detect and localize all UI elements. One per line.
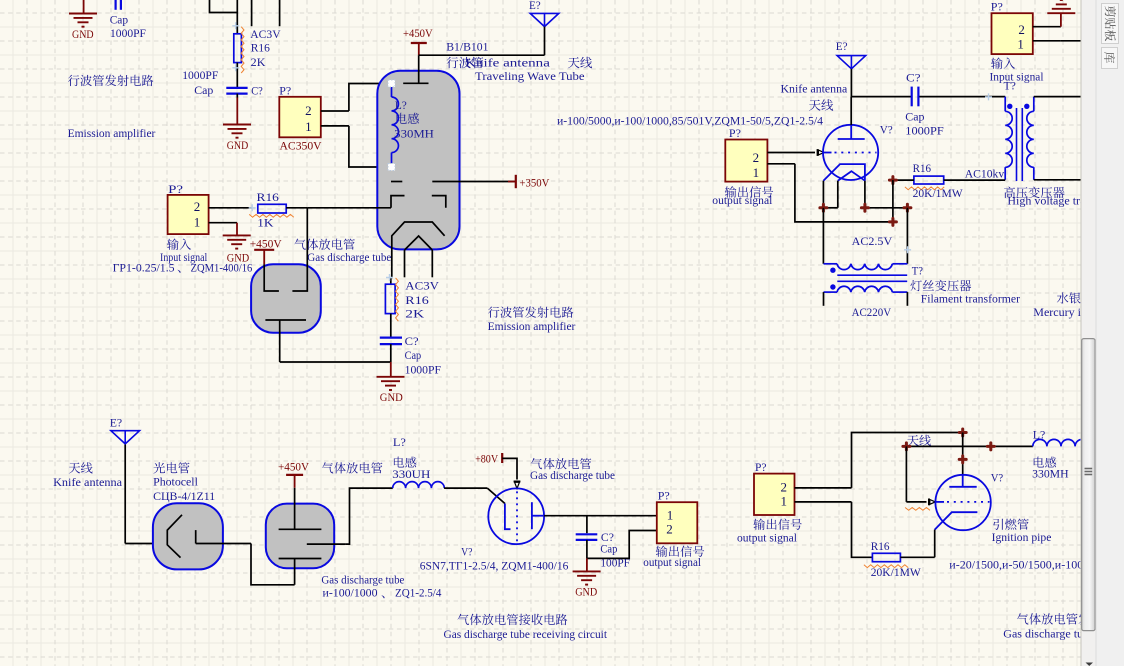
label Gas discharge tube — [307, 250, 391, 264]
svg-text:Emission amplifier: Emission amplifier — [68, 126, 156, 140]
label 输入 Input signal — [160, 238, 208, 264]
label 灯丝变压器 Filament transformer — [910, 280, 1020, 306]
svg-text:1: 1 — [667, 507, 674, 522]
svg-text:1000PF: 1000PF — [405, 363, 442, 377]
svg-text:и-100/1000: и-100/1000 — [323, 586, 378, 600]
svg-text:Traveling Wave Tube: Traveling Wave Tube — [475, 69, 585, 83]
designator P? — [279, 83, 291, 97]
antenna E? (top) — [529, 0, 559, 55]
net label AC10kv — [965, 167, 1005, 181]
right electrode — [292, 208, 307, 291]
svg-text:T?: T? — [1004, 78, 1016, 92]
photocathode — [167, 515, 182, 558]
net label AC2.5V — [852, 234, 893, 248]
left electrode — [264, 264, 279, 291]
svg-text:R16: R16 — [257, 190, 279, 204]
wire (R16 to cathode lead) — [900, 556, 934, 558]
svg-text:R16: R16 — [913, 161, 931, 175]
note ГР1-0.25/1.5、ZQM1-400/16 — [113, 261, 253, 275]
connector P? (input, top-right corner) — [992, 13, 1033, 54]
connector P? (output, bottom middle) — [657, 502, 698, 543]
designator C? Cap 1000PF — [405, 334, 442, 377]
designator V? — [880, 123, 893, 137]
svg-text:R16: R16 — [251, 41, 270, 55]
screen grid left (tube) — [391, 196, 405, 208]
power +450V (gas discharge tube) — [250, 236, 282, 264]
antenna E? (top right) — [836, 39, 866, 97]
anode plate — [838, 125, 865, 139]
svg-text:output signal: output signal — [643, 555, 701, 569]
svg-text:Emission amplifier: Emission amplifier — [488, 319, 576, 333]
section title Gas discharge tube receiving circuit — [444, 627, 608, 641]
cathode (tube) — [392, 222, 445, 278]
gas discharge tube body (small) — [251, 264, 321, 332]
core — [1017, 108, 1023, 181]
svg-text:GND: GND — [72, 27, 94, 41]
svg-text:2K: 2K — [405, 307, 424, 321]
wire (down to filament transformer, right) — [906, 208, 908, 264]
svg-text:Cap: Cap — [600, 541, 617, 555]
pin 2 — [1018, 22, 1061, 37]
wire (junction down to P1 net) — [892, 180, 894, 222]
svg-text:1000PF: 1000PF — [905, 123, 944, 137]
svg-text:+450V: +450V — [278, 459, 309, 473]
wire (down to filament transformer, left) — [822, 208, 824, 264]
wire (R16 left to junction) — [893, 179, 914, 181]
inductor L? (330MH inside tube) — [392, 84, 399, 168]
phase dot — [830, 268, 835, 273]
wire (pin1 to edge) — [1061, 40, 1081, 42]
wire (R16 to C?) — [236, 63, 238, 87]
svg-text:P?: P? — [658, 489, 670, 503]
pin 2 — [305, 103, 349, 118]
bottom electrode — [265, 320, 306, 362]
svg-text:Photocell: Photocell — [153, 474, 198, 488]
capacitor C? (1000PF) — [226, 88, 247, 94]
svg-text:2: 2 — [1018, 22, 1025, 37]
pin 1 — [781, 494, 852, 509]
capacitor C? (top-left, cut at top edge) — [116, 0, 121, 10]
svg-text:1: 1 — [753, 165, 760, 180]
wire (cathode lead down to R16) — [934, 530, 936, 558]
designator B1/B101 — [446, 40, 488, 54]
svg-text:1: 1 — [1017, 36, 1024, 51]
wire (anode top / antenna to transformer) — [851, 97, 1005, 125]
junction — [959, 456, 966, 463]
section title Gas discharge tube (bottom right, clipped) — [1003, 627, 1112, 641]
power +450V — [403, 26, 433, 55]
pin 1 — [305, 119, 349, 134]
svg-text:AC350V: AC350V — [280, 139, 322, 153]
selection handle (inductor bottom) — [388, 164, 395, 171]
power +80V — [475, 452, 502, 466]
svg-text:Cap: Cap — [110, 13, 128, 27]
pin 1 — [753, 164, 795, 180]
ground GND (pin1) — [223, 223, 251, 265]
svg-text:2: 2 — [305, 103, 312, 118]
designator C? — [251, 83, 263, 97]
inductor L? (330UH) — [393, 482, 445, 488]
core — [837, 275, 907, 281]
compile squiggle — [905, 508, 930, 511]
svg-text:E?: E? — [529, 0, 541, 12]
traveling wave tube body — [377, 71, 459, 250]
designator L? 电感 330MH — [394, 98, 434, 140]
svg-text:Input signal: Input signal — [990, 69, 1045, 83]
svg-text:B1/B101: B1/B101 — [446, 40, 488, 54]
capacitor C? (100PF) — [576, 516, 598, 559]
junction — [987, 443, 994, 450]
selection handle (inductor top) — [388, 80, 395, 87]
designator V? / 6SN7,ТГ1-2.5/4, ZQM1-400/16 — [420, 545, 569, 573]
cathode — [823, 164, 865, 181]
svg-text:Gas discharge tube: Gas discharge tube — [307, 250, 391, 264]
svg-text:1000PF: 1000PF — [182, 68, 218, 82]
bottom electrode — [279, 559, 322, 585]
wire (antenna net horizontal) — [906, 445, 1032, 447]
wire (C? to GND) — [236, 94, 238, 98]
section title Emission amplifier (top-left) — [68, 126, 156, 140]
svg-text:R16: R16 — [871, 539, 890, 553]
svg-text:V?: V? — [461, 545, 472, 559]
svg-text:Ignition pipe: Ignition pipe — [992, 530, 1052, 544]
wire (anode riser) — [962, 433, 964, 475]
designator L? 电感 330UH — [392, 435, 430, 481]
connector P? (output signal, top-right) — [725, 140, 767, 182]
label 输入 Input signal — [990, 57, 1045, 83]
svg-text:+80V: +80V — [475, 452, 498, 466]
svg-text:330MH: 330MH — [394, 127, 434, 141]
anode — [195, 530, 197, 543]
svg-text:R16: R16 — [405, 293, 429, 307]
wire (photocell to discharge tube) — [196, 544, 295, 585]
svg-text:L?: L? — [395, 98, 407, 112]
value label 1000PF Cap — [182, 68, 218, 97]
pin 1 — [667, 507, 674, 522]
gas discharge tube body (bottom) — [266, 504, 334, 569]
note и-20/1500,и-50/1500,и-100/1500 — [949, 558, 1124, 572]
svg-text:GND: GND — [575, 584, 597, 598]
label AC3V R16 2K — [250, 27, 281, 69]
svg-text:1K: 1K — [257, 216, 274, 230]
label 气体放电管 Gas discharge tube (center) — [530, 458, 615, 482]
pin 1 — [1017, 36, 1061, 51]
photocell tube body — [153, 503, 223, 569]
wire (pin2 up to inductor top) — [349, 84, 392, 112]
ground GND (inverted, top) — [1047, 0, 1075, 27]
svg-text:output signal: output signal — [712, 193, 773, 207]
scrollbar down arrow — [1086, 663, 1094, 666]
primary winding — [1005, 97, 1012, 180]
wire (C? to junction) — [390, 344, 392, 362]
svg-text:1: 1 — [194, 215, 201, 230]
inductor L? (330MH right, clipped) — [1033, 428, 1089, 447]
svg-text:C?: C? — [906, 70, 921, 84]
wire (middle electrode to inductor) — [345, 488, 392, 544]
svg-text:P?: P? — [168, 182, 183, 196]
wire (antenna to photocell) — [125, 543, 167, 545]
svg-text:1: 1 — [305, 119, 312, 134]
label 气体放电管 — [294, 239, 355, 250]
svg-text:+450V: +450V — [403, 26, 433, 40]
svg-text:output signal: output signal — [737, 531, 798, 545]
label 电感 330MH — [1032, 457, 1069, 481]
value label Cap 1000PF — [110, 13, 147, 41]
svg-text:V?: V? — [991, 471, 1004, 485]
junction — [889, 218, 896, 225]
section title 行波管发射电路 (center) — [488, 306, 573, 317]
svg-text:Gas discharge tube receiving c: Gas discharge tube receiving circuit — [444, 627, 608, 641]
power +350V — [508, 175, 550, 190]
label 天线 Knife antenna — [53, 462, 123, 489]
svg-text:Gas discharge tube: Gas discharge tube — [321, 573, 404, 587]
designator R16 / 20K/1MW — [871, 539, 922, 579]
gas discharge triode V? (6SN7) — [488, 488, 544, 544]
designator C? Cap 100PF — [600, 530, 630, 570]
wire (top, elbow into R16 column) — [210, 0, 238, 13]
wire (+80V to tube anode) — [502, 458, 517, 479]
svg-text:Cap: Cap — [405, 348, 422, 362]
junction — [904, 204, 911, 211]
svg-text:P?: P? — [755, 460, 767, 474]
svg-text:и-100/5000,и-100/1000,85/501V,: и-100/5000,и-100/1000,85/501V,ZQM1-50/5,… — [557, 114, 823, 128]
pin 2 — [753, 150, 815, 165]
ground GND (top-left) — [69, 0, 97, 41]
connector P? (input, left) — [168, 195, 209, 234]
svg-text:2: 2 — [666, 522, 673, 537]
svg-text:E?: E? — [836, 39, 848, 53]
grid (dotted) — [935, 501, 989, 503]
heater filament (tube) — [405, 236, 433, 277]
connector P? (AC350V) — [279, 97, 321, 138]
svg-text:E?: E? — [110, 416, 122, 430]
scrollbar track — [1081, 0, 1096, 666]
wire (R16 output to tube, junction branch) — [286, 207, 307, 209]
heater filament — [838, 171, 865, 181]
grid (dotted) — [823, 152, 877, 154]
control grid (tube) — [391, 181, 460, 183]
svg-text:T?: T? — [912, 263, 923, 277]
svg-text:ГР1-0.25/1.5: ГР1-0.25/1.5 — [113, 261, 175, 275]
resistor R16 (2K, vertical) — [234, 27, 244, 73]
label 输出信号 output signal — [643, 545, 704, 569]
svg-text:6SN7,ТГ1-2.5/4, ZQM1-400/16: 6SN7,ТГ1-2.5/4, ZQM1-400/16 — [420, 558, 569, 572]
pin 2 — [666, 522, 673, 537]
designator R16 / 20K/1MW — [913, 161, 964, 200]
svg-text:GND: GND — [380, 390, 403, 404]
top electrode — [279, 488, 322, 530]
svg-text:СЦВ-4/1Z11: СЦВ-4/1Z11 — [153, 489, 215, 503]
wire (bottom electrode to C? junction) — [280, 361, 391, 363]
svg-text:GND: GND — [227, 138, 249, 152]
label Traveling Wave Tube — [475, 69, 585, 83]
transformer T? (high voltage) — [1004, 78, 1016, 92]
resistor R16 (1K, horizontal) — [249, 204, 294, 217]
wire (cathode left pin) — [822, 181, 824, 208]
designator C? Cap 1000PF — [905, 70, 944, 137]
junction — [861, 204, 868, 211]
wire (tube output) — [544, 515, 657, 517]
primary lead wires — [824, 292, 908, 306]
svg-text:P?: P? — [991, 0, 1003, 14]
junction — [820, 204, 827, 211]
triode tube V? (top right) — [823, 125, 878, 180]
designator P? — [168, 182, 183, 196]
section title Emission amplifier (center) — [488, 319, 576, 333]
label Gas discharge tube / и-100/1000、ZQ1-2.5/4 — [321, 573, 441, 600]
wire (pin1 down to inductor bottom) — [349, 126, 392, 167]
grid bar — [505, 504, 511, 530]
panel tab 库 (library) — [1102, 48, 1118, 69]
svg-text:V?: V? — [880, 123, 893, 137]
wire (transformer top right to edge) — [1034, 96, 1081, 98]
svg-text:AC220V: AC220V — [852, 305, 892, 319]
phase dot — [830, 284, 835, 289]
svg-text:C?: C? — [405, 334, 419, 348]
label 高压变压器 High voltage transformer — [1004, 187, 1124, 208]
pin 2 — [194, 199, 252, 214]
wire (cathode right pin) — [865, 181, 908, 208]
svg-text:1000PF: 1000PF — [110, 26, 146, 40]
gas indicator (dotted) — [516, 491, 518, 542]
wire (down to grid arrow) — [906, 446, 926, 502]
net label AC220V — [852, 305, 892, 319]
wire (R16 to C?) — [390, 314, 392, 337]
ground GND (main) — [377, 362, 405, 404]
right electrode — [532, 502, 544, 529]
junction — [903, 443, 910, 450]
panel tab 剪贴板 (clipboard) — [1102, 4, 1119, 44]
section title 气体放电管发射电路 (bottom right, clipped) — [1017, 613, 1102, 624]
svg-text:C?: C? — [251, 83, 263, 97]
primary winding — [824, 286, 908, 292]
svg-text:Filament transformer: Filament transformer — [921, 291, 1020, 305]
designator T? — [912, 263, 923, 277]
anode plate (tube) — [403, 55, 428, 83]
snap cross markers (grid indicators) — [232, 22, 992, 281]
svg-text:2K: 2K — [251, 55, 266, 69]
ground GND (below C?) — [223, 98, 251, 152]
screen grid right (tube) — [432, 196, 446, 208]
svg-text:Gas discharge tube: Gas discharge tube — [530, 468, 615, 482]
capacitor C? (coupling 1000PF) — [912, 87, 919, 107]
label 输出信号 output signal — [737, 518, 802, 544]
power +450V (bottom) — [278, 459, 309, 487]
wire (anode to antenna) — [419, 54, 545, 56]
svg-text:2: 2 — [781, 480, 788, 495]
label AC3V R16 2K — [405, 279, 439, 321]
svg-text:ZQ1-2.5/4: ZQ1-2.5/4 — [395, 586, 441, 600]
ground GND (C?) — [573, 558, 601, 598]
designator P? — [729, 126, 741, 140]
label 输出信号 output signal — [712, 186, 773, 207]
wire (heater left pin) — [823, 181, 837, 208]
svg-text:+450V: +450V — [250, 236, 282, 250]
svg-text:P?: P? — [729, 126, 741, 140]
designator R16 / value 1K — [257, 190, 279, 229]
wire (C? bottom to P? pin2) — [587, 531, 657, 559]
designator V? — [991, 471, 1004, 485]
cathode — [935, 512, 978, 529]
anode plate — [949, 475, 976, 487]
net label AC350V — [280, 139, 322, 153]
pin 1 — [194, 215, 237, 230]
phase dot — [1007, 104, 1012, 109]
pin 2 — [781, 480, 852, 495]
svg-text:Knife antenna: Knife antenna — [465, 55, 551, 69]
svg-text:330MH: 330MH — [1032, 467, 1069, 481]
wire (grid to +350V) — [460, 181, 516, 183]
ignitron tube V? (bottom right) — [935, 475, 990, 530]
input arrow into tube grid — [817, 149, 819, 156]
junction — [889, 177, 896, 184]
wire (pin1 to bottom net) — [795, 164, 893, 222]
label 光电管 Photocell СЦВ-4/1Z11 — [153, 462, 215, 503]
resistor R16 (2K, below tube) — [385, 278, 398, 321]
svg-text:2: 2 — [753, 150, 760, 165]
section title 气体放电管接收电路 — [457, 614, 567, 625]
designator P? — [991, 0, 1003, 14]
svg-text:GND: GND — [227, 250, 250, 264]
capacitor C? (1000PF) — [380, 338, 402, 345]
wire (R16 right to transformer) — [944, 179, 1006, 181]
resistor R16 (20K/1MW) — [905, 176, 944, 190]
wire (input into screen grid) — [307, 207, 391, 209]
label 行波管 Knife antenna 天线 — [447, 55, 593, 69]
wire (transformer bottom right to edge) — [1034, 179, 1081, 181]
middle electrode (output) — [307, 543, 346, 545]
svg-text:+350V: +350V — [519, 176, 549, 190]
antenna E? (bottom left) — [110, 416, 140, 544]
phase dot — [1024, 104, 1029, 109]
label 气体放电管 (bottom left) — [322, 462, 383, 473]
svg-text:Knife antenna: Knife antenna — [781, 82, 848, 96]
side panel — [1096, 0, 1124, 666]
anode arrow — [514, 481, 521, 483]
wire (pin2 up and over to tube anode) — [852, 433, 963, 488]
svg-text:20K/1MW: 20K/1MW — [871, 565, 922, 579]
label Knife antenna 天线 — [781, 82, 848, 111]
grid arrow — [928, 499, 930, 506]
svg-text:2: 2 — [194, 199, 201, 214]
wire (pin1 down to R16) — [852, 502, 873, 557]
secondary winding — [1027, 97, 1034, 180]
junction — [959, 429, 966, 436]
designator P? — [658, 489, 670, 503]
svg-text:Cap: Cap — [194, 83, 213, 97]
section title 行波管发射电路 (top-left) — [68, 75, 153, 86]
note text tube types — [557, 114, 823, 128]
wire (inductor to tube grid) — [444, 488, 505, 503]
wire (top into resistor R16) — [236, 0, 238, 34]
transformer T? (filament) secondary winding — [824, 264, 908, 270]
scrollbar grip — [1085, 469, 1093, 475]
svg-text:330UH: 330UH — [392, 467, 430, 481]
designator P? — [755, 460, 767, 474]
resistor R16 (20K/1MW bottom) — [864, 553, 908, 567]
svg-text:AC3V: AC3V — [250, 27, 281, 41]
wire stubs at top edge — [252, 0, 280, 26]
svg-text:Cap: Cap — [905, 109, 924, 123]
svg-text:AC10kv: AC10kv — [965, 167, 1005, 181]
connector P? (output, bottom right) — [754, 474, 795, 515]
svg-text:L?: L? — [393, 435, 406, 449]
svg-text:AC3V: AC3V — [405, 279, 439, 293]
wire (cathode to R16) — [390, 278, 392, 284]
svg-text:Knife antenna: Knife antenna — [53, 475, 123, 489]
label 天线 (bottom right) — [907, 435, 931, 446]
label 引燃管 Ignition pipe — [992, 519, 1052, 544]
